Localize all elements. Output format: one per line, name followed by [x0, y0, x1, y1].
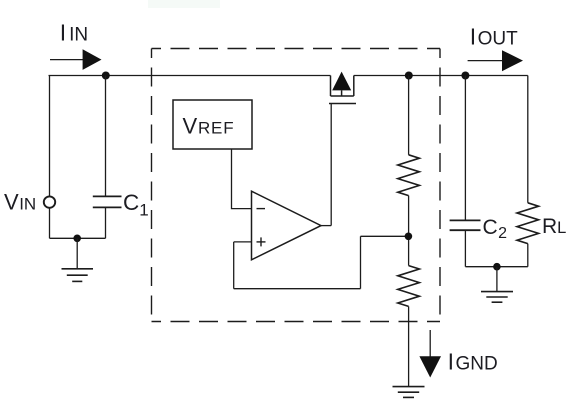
wire: input ground stem: [76, 238, 78, 268]
svg-text:RL: RL: [542, 215, 566, 238]
wire: gate drive vertical: [330, 104, 332, 226]
wire: VIN vertical upper: [49, 76, 51, 197]
node: output rail / C2 junction: [461, 72, 469, 80]
resistor RL load: [517, 203, 539, 244]
VREF box U-ref: [173, 100, 252, 149]
VIN terminal circle: [44, 196, 55, 207]
faint highlight band: [148, 0, 220, 8]
wire: output bottom wire: [465, 266, 527, 268]
wire: VREF output lead: [232, 149, 252, 209]
wire: output rail from pass transistor to RL branch: [354, 75, 528, 77]
capacitor C2: [450, 220, 481, 230]
svg-text:IOUT: IOUT: [470, 24, 518, 50]
wire: bottom wire VIN to C1: [50, 237, 106, 239]
wire: divider upper lead: [408, 76, 410, 155]
op-amp plus sign: [257, 237, 266, 246]
node: divider top at output rail: [405, 72, 413, 80]
svg-text:C2: C2: [483, 216, 508, 242]
node: input ground junction: [73, 235, 81, 243]
transistor Q1 pass device body: [331, 76, 354, 97]
wire: VIN vertical lower: [49, 208, 51, 239]
wire: C2 branch lower: [464, 230, 466, 267]
wire: non-inverting input lead: [234, 241, 251, 243]
dashed IC boundary box: [152, 49, 441, 322]
resistor R2 lower divider: [398, 266, 420, 307]
wire: output ground stem: [496, 267, 498, 292]
wire: feedback path up: [360, 236, 362, 288]
op-amp error amplifier: [252, 191, 322, 260]
node: input rail / C1 junction: [102, 72, 110, 80]
node: feedback tap: [405, 233, 413, 241]
transistor Q1 arrow: [332, 72, 351, 91]
svg-text:IGND: IGND: [448, 349, 498, 375]
wire: ground leg of divider: [408, 306, 410, 386]
IGND arrow: [419, 330, 441, 378]
IIN arrow: [50, 49, 102, 70]
wire: C1 branch upper: [105, 76, 107, 197]
wire: input rail from VIN branch to pass transistor: [49, 75, 331, 77]
wire: divider middle: [408, 196, 410, 266]
ground: input side: [62, 269, 94, 282]
svg-text:C1: C1: [123, 190, 149, 220]
ground: IC ground: [393, 387, 425, 398]
svg-text:IIN: IIN: [60, 20, 88, 46]
wire: C2 branch upper: [464, 76, 466, 221]
wire: op-amp output lead: [321, 225, 331, 227]
svg-text:VREF: VREF: [183, 114, 235, 139]
wire: RL branch upper: [527, 76, 529, 203]
wire: C1 branch lower: [105, 207, 107, 238]
svg-text:VIN: VIN: [4, 190, 36, 215]
wire: RL branch lower: [527, 244, 529, 267]
transistor Q1 gate bar: [329, 103, 356, 105]
wire: feedback path down: [233, 242, 235, 289]
ground: output side: [481, 292, 513, 303]
wire: feedback path bottom horizontal: [234, 288, 361, 290]
resistor R1 upper divider: [398, 155, 420, 196]
capacitor C1: [93, 196, 122, 207]
op-amp minus sign: [257, 208, 266, 210]
wire: feedback path to divider node: [361, 235, 409, 237]
IOUT arrow: [468, 50, 523, 71]
node: output ground junction: [493, 263, 501, 271]
